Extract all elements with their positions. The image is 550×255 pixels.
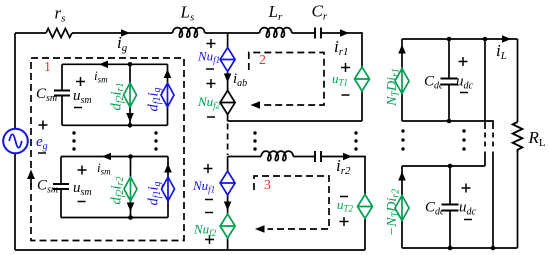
wire: L_s to node A [205, 32, 260, 34]
minus sign u_T1 [342, 94, 350, 96]
wire: row-2 chain middle segment [227, 195, 229, 214]
capacitor C_sm module-2 [53, 184, 69, 189]
svg-text:2: 2 [259, 53, 266, 68]
wire: dc2 left branch below diamond [401, 221, 403, 249]
dependent voltage source Nu_f2 row-1 (black diamond) [220, 91, 235, 115]
svg-text:df1ig: df1ig [146, 181, 164, 205]
dc1 left branch arrow (up) [398, 45, 406, 54]
dependent voltage source u_T1 (green diamond) [355, 67, 370, 91]
junction node module-2 top [128, 154, 133, 159]
continuation dots column SM left [72, 131, 75, 150]
wire: module-2 inner branch segments [130, 157, 132, 218]
minus sign u_dc dc1 [460, 92, 468, 94]
capacitor C_r row-1 [315, 28, 321, 39]
inductor L_r row-1 [260, 28, 292, 38]
dependent voltage source Nu_f1 row-2 (blue diamond) [220, 171, 235, 195]
wire: module-1 left with C_sm gap [61, 64, 63, 125]
wire: dc2 bottom rail [402, 247, 518, 249]
svg-text:df1ig: df1ig [146, 87, 164, 111]
svg-text:uT1: uT1 [332, 71, 348, 88]
minus sign u_sm module-2 [78, 201, 86, 203]
dependent voltage source Nu_f1 row-1 (blue diamond) [220, 48, 235, 72]
minus sign Nu_f2 row-2 [205, 212, 213, 214]
wire: dashed chain continuation between rows [227, 124, 229, 156]
wire: u_T2 branch below diamond [364, 219, 366, 251]
svg-text:eg: eg [36, 134, 48, 152]
dashed loop box 2 [249, 53, 324, 106]
wire: module-1 inner branch segments [129, 64, 131, 125]
wire: row-2 C_r to corner down [321, 157, 365, 195]
wire: dc1 bottom wire [402, 121, 493, 129]
wire: dc1 left branch below diamond [401, 94, 403, 122]
svg-text:uT2: uT2 [337, 197, 354, 214]
svg-text:Csm: Csm [37, 178, 58, 196]
plus sign u_dc dc2 [462, 184, 471, 193]
dependent current source d_f2 i_r2 module-2 (green diamond) [124, 177, 137, 201]
wire: row-2 resonant wire segments [228, 156, 261, 158]
svg-text:Cdc: Cdc [424, 74, 444, 92]
wire: dc1 top rail [402, 38, 518, 40]
module-1 inner branch arrow (down) [126, 113, 134, 122]
inductor L_r row-2 [261, 151, 293, 161]
plus sign Nu_f2 row-1 [207, 79, 216, 88]
wire: module-1 bottom [62, 124, 168, 126]
svg-text:Nuf1: Nuf1 [197, 49, 220, 66]
wire: module-2 left with C_sm gap [60, 157, 62, 218]
dashed loop box 3 [254, 176, 329, 229]
wire: r_s to L_s [72, 32, 173, 34]
module-2 right edge arrow (up) [164, 164, 172, 173]
ac source e_g [3, 129, 28, 154]
wire: chain below Nu_f2 to loop-1 bottom [227, 115, 229, 122]
svg-text:rs: rs [55, 4, 66, 25]
svg-text:Nuf2: Nuf2 [197, 94, 221, 111]
wire: dc1 right branch dashed continuation [484, 133, 486, 150]
dependent current source N_T D i_r1 dc1 (green diamond) [395, 69, 409, 94]
dependent current source -N_T D i_r2 dc2 (green diamond) [395, 196, 409, 221]
plus sign u_sm module-2 [78, 166, 87, 175]
continuation dots column dc middle [462, 129, 465, 150]
loop-1 direction arrow (up, on left dashed edge) [27, 170, 35, 180]
loop-2 direction arrow (left) [251, 101, 261, 109]
svg-text:df2ir2: df2ir2 [109, 177, 127, 205]
minus sign u_T2 [340, 196, 348, 198]
dependent current source d_f1 i_g module-1 (blue diamond) [161, 83, 174, 107]
wire: dc1 right branch [484, 39, 486, 129]
current arrow i_g [121, 29, 130, 37]
wire: series link solid down to rail [492, 152, 494, 249]
module-2 i_sm arrow (left) [102, 153, 111, 161]
wire: left vertical above source [14, 33, 16, 129]
wire: R_L branch upper [517, 39, 519, 122]
minus sign Nu_f1 row-1 [206, 68, 214, 70]
wire: dc2 left branch above diamond [401, 166, 403, 196]
resistor r_s [46, 29, 72, 38]
svg-text:3: 3 [264, 178, 271, 193]
signs and labels below [38, 39, 472, 244]
plus sign Nu_f1 row-1 [207, 39, 216, 48]
wire: loop-1 bottom wire [228, 120, 362, 122]
minus sign Nu_f2 row-1 [207, 116, 215, 118]
wire: module-2 right edge segments [167, 157, 169, 218]
dependent voltage source Nu_f2 row-2 (green diamond) [220, 214, 235, 238]
dashed loop box 1 [31, 58, 184, 241]
wire: dc2 top link up stub [484, 152, 486, 167]
wire: module-2 top [61, 156, 168, 158]
wire: row-2 chain bottom stub [227, 238, 229, 250]
junction node module-1 top [128, 62, 133, 67]
current arrow i_r1 [340, 29, 349, 37]
current arrow i_L [502, 35, 511, 43]
minus sign e_g [38, 152, 46, 154]
wire: dc2 top rail [402, 165, 485, 167]
minus sign Nu_f1 row-2 [205, 199, 213, 201]
junction node dc2 bottom at series link [491, 246, 496, 251]
svg-text:iL: iL [496, 41, 507, 62]
capacitor C_r row-2 [315, 151, 321, 162]
svg-text:NTDir1: NTDir1 [385, 68, 402, 107]
wire: bottom rail [15, 249, 365, 251]
junction node dc2 bottom at C_dc [448, 246, 453, 251]
svg-text:Cdc: Cdc [425, 200, 445, 218]
dependent voltage source u_T2 (green diamond) [358, 195, 373, 219]
plus sign u_dc dc1 [459, 57, 468, 66]
wire: dc2 C_dc branch [449, 166, 451, 248]
dependent current source d_f1 i_g module-2 (blue diamond) [162, 177, 175, 201]
plus sign u_T2 [340, 217, 349, 226]
wire: C_r to corner, corner down at x=362 [321, 33, 362, 67]
svg-text:Csm: Csm [36, 86, 57, 104]
loop-3 direction arrow (left) [255, 225, 265, 233]
continuation dots column loop area right [354, 131, 357, 150]
dependent current source d_f2 i_r1 module-1 (green diamond) [124, 83, 137, 107]
junction node dc1 top at C_dc [447, 37, 452, 42]
junction node dc1 top at right branch [483, 37, 488, 42]
svg-text:ir1: ir1 [334, 37, 349, 58]
module-1 i_sm arrow (left) [99, 61, 108, 69]
current arrow i_r2 [343, 153, 352, 161]
continuation dots column loop area left [253, 131, 256, 150]
current arrow i_ab (down) [224, 74, 232, 83]
wire: module-1 top [62, 63, 168, 65]
plus sign u_T1 [341, 63, 350, 72]
svg-text:Lr: Lr [268, 2, 283, 23]
module-1 right edge arrow (up) [164, 69, 172, 78]
wire: row-2 chain top stub [227, 157, 229, 172]
row-2 chain arrow (down) [224, 202, 232, 211]
svg-text:ism: ism [94, 68, 108, 85]
capacitor C_sm module-1 [54, 91, 70, 96]
wire: top main left segment [15, 32, 46, 34]
svg-text:Nuf2: Nuf2 [193, 222, 217, 239]
junction node dc1 bottom at C_dc [447, 119, 452, 124]
svg-text:iab: iab [233, 71, 247, 89]
svg-text:udc: udc [459, 200, 477, 218]
capacitor C_dc dc1 [441, 79, 458, 85]
wire: u_T1 branch below diamond [361, 91, 363, 121]
wire: left vertical below source [14, 153, 16, 250]
svg-text:Cr: Cr [312, 2, 328, 23]
svg-text:Nuf1: Nuf1 [192, 178, 215, 195]
wire: chain between Nu_f1 and Nu_f2 (i_ab segment) [227, 72, 229, 91]
plus sign Nu_f1 row-2 [204, 164, 213, 173]
junction node module-1 bottom [128, 123, 133, 128]
continuation dots column SM right [154, 131, 157, 150]
svg-text:df2ir1: df2ir1 [109, 83, 127, 111]
dc2 left branch arrow (up) [398, 172, 406, 181]
wire: L_r to C_r [292, 32, 315, 34]
resistor R_L [513, 122, 523, 152]
wire: dc1 left branch above diamond [401, 39, 403, 69]
junction node module-2 bottom [128, 215, 133, 220]
svg-text:ism: ism [97, 160, 111, 177]
wire: module-2 bottom [61, 217, 168, 219]
svg-text:1: 1 [44, 60, 51, 75]
plus sign u_sm module-1 [76, 77, 85, 86]
plus sign Nu_f2 row-2 [205, 235, 214, 244]
module-2 inner branch arrow (down) [127, 203, 135, 212]
junction node dc2 top at C_dc [448, 164, 453, 169]
wire: R_L branch lower [517, 152, 519, 248]
capacitor C_dc dc2 [442, 205, 459, 211]
inductor L_s [173, 28, 205, 38]
svg-text:usm: usm [73, 88, 92, 106]
wire: dc1 C_dc branch [448, 39, 450, 121]
wire: chain x=228 top stub [227, 33, 229, 48]
svg-text:udc: udc [456, 74, 474, 92]
wire: series link dashed [492, 133, 494, 150]
minus sign u_dc dc2 [464, 219, 472, 221]
continuation dots column dc left [401, 129, 404, 150]
minus sign u_sm module-1 [74, 107, 82, 109]
wire: module-1 right edge segments [167, 64, 169, 125]
svg-text:−NTDir2: −NTDir2 [385, 189, 402, 236]
svg-text:usm: usm [73, 180, 92, 198]
plus sign e_g [39, 121, 48, 130]
svg-text:RL: RL [528, 128, 546, 149]
svg-text:Ls: Ls [180, 3, 195, 24]
